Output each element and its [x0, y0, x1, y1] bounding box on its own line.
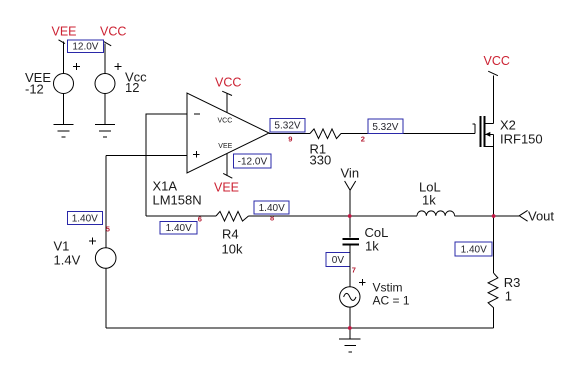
transistor X2 source stub — [485, 134, 494, 146]
ground Vstim — [339, 328, 361, 352]
wire bottom rail — [106, 327, 494, 329]
op-amp plus symbol — [193, 151, 200, 158]
wire V1 top — [105, 156, 107, 248]
svg-text:10k: 10k — [222, 241, 243, 256]
resistor R4 — [216, 211, 249, 221]
svg-text:VCC: VCC — [215, 75, 241, 89]
transistor X2 channel bar — [483, 116, 485, 147]
probe tick X2 VCC — [488, 71, 498, 76]
junction Vout node — [492, 214, 496, 218]
svg-text:1k: 1k — [365, 239, 379, 254]
probe tick VCC wire — [102, 40, 111, 45]
wire R4 to LoL — [249, 215, 418, 217]
svg-text:8: 8 — [270, 214, 274, 223]
wire Vstim bottom — [349, 307, 351, 328]
svg-text:Vin: Vin — [341, 166, 360, 181]
source Vstim — [340, 279, 366, 307]
svg-text:VEE: VEE — [52, 25, 77, 39]
junction ground node — [348, 326, 352, 330]
voltage source Vcc — [95, 63, 121, 93]
svg-text:V1: V1 — [54, 239, 70, 254]
svg-text:6: 6 — [198, 214, 202, 223]
resistor R1 — [310, 129, 341, 139]
wire R3 bottom — [493, 308, 495, 328]
label X1A LM158N — [153, 179, 202, 208]
Vout arrow — [519, 210, 527, 221]
wire op-amp output — [269, 133, 310, 135]
svg-text:1: 1 — [505, 288, 512, 303]
wire V1 bottom — [105, 268, 107, 328]
wire X2 drain — [493, 76, 495, 124]
svg-text:9: 9 — [288, 134, 292, 143]
op-amp VEE power pin — [223, 154, 232, 179]
svg-text:0V: 0V — [332, 255, 345, 266]
label V1 1.4V — [54, 239, 81, 268]
voltage source VEE — [54, 63, 80, 93]
op-amp X1A triangle — [187, 93, 269, 173]
junction Vin node — [348, 214, 352, 218]
svg-text:R4: R4 — [222, 226, 239, 241]
inductor LoL — [417, 211, 455, 216]
svg-text:VCC: VCC — [218, 118, 233, 125]
svg-text:12: 12 — [125, 80, 139, 95]
svg-text:1k: 1k — [422, 193, 436, 208]
svg-text:Vstim: Vstim — [373, 281, 403, 295]
svg-text:VCC: VCC — [484, 54, 510, 68]
Vin arrow — [345, 181, 356, 190]
svg-text:VEE: VEE — [214, 180, 239, 194]
wire to Vout — [494, 215, 520, 217]
voltage source V1 — [89, 238, 116, 269]
label VEE -12 — [25, 70, 51, 97]
svg-text:VCC: VCC — [100, 25, 126, 39]
svg-text:5.32V: 5.32V — [372, 122, 398, 133]
wire X2 source down — [493, 146, 495, 216]
label R4 10k — [222, 226, 243, 256]
wire Vcc source bottom — [104, 93, 106, 124]
wire CoL to Vstim — [349, 246, 351, 287]
wire Vcc source top — [104, 44, 106, 74]
op-amp VCC power pin — [222, 91, 232, 112]
label Vcc 12 — [125, 70, 147, 96]
bias box 1.40V node6 — [160, 221, 197, 234]
op-amp minus symbol — [194, 113, 200, 115]
wire Vin drop — [349, 190, 351, 237]
svg-text:VEE: VEE — [218, 143, 232, 150]
bias box 5.32V node2 — [368, 119, 403, 133]
label R3 1 — [504, 275, 521, 303]
svg-text:330: 330 — [310, 152, 332, 167]
wire VEE source top — [63, 42, 65, 74]
svg-text:5.32V: 5.32V — [274, 121, 300, 132]
capacitor CoL — [343, 239, 360, 245]
svg-text:X2: X2 — [500, 118, 516, 133]
wire plus input — [106, 155, 187, 157]
svg-text:1.40V: 1.40V — [72, 214, 98, 225]
bias box 5.32V node9 — [270, 118, 305, 132]
wire LoL to Vout node — [455, 215, 494, 217]
probe tick VEE wire — [59, 40, 66, 44]
svg-text:5: 5 — [106, 224, 110, 233]
bias box 1.40V R3 — [455, 242, 492, 256]
ground VEE source — [54, 124, 74, 137]
bias box 0V node7 — [326, 253, 350, 267]
svg-text:Vout: Vout — [528, 209, 554, 224]
label Vstim AC = 1 — [373, 281, 410, 308]
bias box 12.0V — [67, 40, 103, 53]
transistor X2 gate bar — [479, 116, 481, 147]
svg-text:LM158N: LM158N — [153, 193, 202, 208]
svg-text:AC = 1: AC = 1 — [373, 294, 410, 308]
transistor X2 drain stub — [485, 123, 494, 125]
bias box 1.40V node5 — [67, 212, 102, 225]
wire minus input and feedback — [146, 114, 187, 216]
wire Vout node to R3 — [493, 216, 495, 273]
svg-text:12.0V: 12.0V — [72, 42, 98, 53]
svg-text:7: 7 — [352, 266, 356, 275]
label CoL 1k — [365, 225, 389, 253]
svg-text:1.40V: 1.40V — [166, 223, 192, 234]
svg-text:1.4V: 1.4V — [54, 253, 81, 268]
label R1 330 — [310, 141, 332, 167]
resistor R3 — [488, 273, 498, 308]
wire R1 to gate — [341, 124, 475, 133]
svg-text:X1A: X1A — [153, 179, 178, 194]
svg-text:2: 2 — [361, 134, 365, 143]
label X2 IRF150 — [500, 118, 543, 147]
label LoL 1k — [419, 179, 441, 207]
bias box 1.40V node8 — [254, 201, 289, 214]
svg-text:-12.0V: -12.0V — [238, 157, 268, 168]
ground Vcc source — [95, 124, 115, 137]
svg-text:IRF150: IRF150 — [500, 132, 543, 147]
bias box -12.0V — [234, 154, 272, 168]
svg-text:1.40V: 1.40V — [461, 244, 487, 255]
wire rail left — [146, 215, 216, 217]
transistor X2 body arrow — [485, 132, 494, 137]
wire VEE source bottom — [63, 93, 65, 124]
svg-text:1.40V: 1.40V — [259, 203, 285, 214]
svg-text:-12: -12 — [25, 82, 44, 97]
